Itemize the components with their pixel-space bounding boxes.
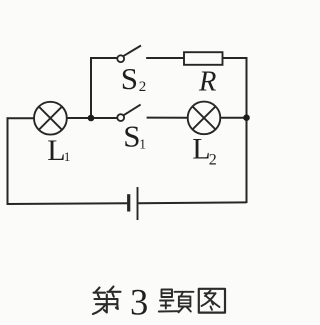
svg-text:R: R (198, 66, 216, 97)
svg-text:L: L (192, 133, 210, 166)
svg-text:L: L (47, 134, 65, 167)
svg-text:2: 2 (139, 79, 147, 95)
svg-text:1: 1 (64, 149, 71, 164)
svg-text:S: S (121, 61, 138, 96)
svg-text:S: S (123, 118, 140, 153)
svg-text:2: 2 (209, 152, 217, 169)
svg-text:1: 1 (139, 136, 146, 151)
svg-text:3: 3 (130, 281, 148, 322)
